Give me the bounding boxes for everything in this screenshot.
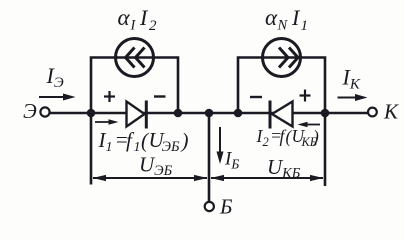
label plus (VD2) [300, 90, 311, 102]
terminal circle Э [40, 107, 49, 116]
arrow I_Э (current arrow, right) [39, 96, 67, 98]
dimension arrowhead U_КБ left [211, 175, 225, 181]
svg-text:α: α [118, 5, 131, 30]
svg-text:): ) [312, 127, 319, 147]
terminal circle К [368, 108, 377, 117]
svg-text:N: N [277, 18, 289, 34]
current source CS1 chevron arrows (pointing left) [126, 48, 135, 68]
terminal circle Б [205, 202, 214, 211]
wire main horizontal [50, 112, 368, 115]
label alpha_I I_2 [118, 5, 158, 34]
junction node dot 3 (base) [205, 109, 214, 118]
svg-text:2: 2 [263, 135, 269, 149]
svg-text:I: I [139, 5, 149, 30]
svg-text:К: К [383, 100, 399, 124]
junction node dot 5 [321, 109, 330, 118]
svg-text:): ) [181, 129, 189, 153]
label formula I1 = f1(U_ЭБ) [98, 128, 189, 156]
wire right loop [238, 58, 325, 114]
dimension arrowhead U_КБ right [310, 175, 324, 181]
svg-text:ЭБ: ЭБ [162, 139, 180, 155]
diode VD2 triangle [272, 102, 293, 127]
junction node dot 4 [234, 109, 243, 118]
wire base vertical [208, 113, 211, 202]
svg-text:UЭБ: UЭБ [139, 153, 173, 180]
diode VD1 cathode bar [145, 101, 148, 129]
svg-text:I: I [291, 5, 301, 30]
arrow I_1 (small, right) [95, 121, 112, 123]
label plus (VD1 anode) [104, 91, 115, 102]
dimension arrowhead U_ЭБ right [194, 175, 208, 181]
diode VD2 cathode bar [269, 101, 272, 129]
current source CS2 circle [263, 39, 301, 77]
svg-text:UКБ: UКБ [267, 155, 301, 182]
diode VD1 triangle [127, 102, 145, 127]
dimension arrowhead U_ЭБ left [93, 175, 107, 181]
junction node dot 1 [87, 109, 96, 118]
label formula I2 = f(U_КБ) [256, 126, 320, 150]
junction node dot 2 [174, 109, 183, 118]
wire left loop [91, 58, 178, 114]
svg-text:Б: Б [219, 195, 232, 219]
svg-text:Э: Э [23, 99, 37, 123]
svg-text:IБ: IБ [224, 149, 239, 172]
arrow I_К (current arrow, right) [338, 97, 360, 99]
extension line left (x=91) [90, 117, 93, 185]
svg-text:I: I [130, 18, 137, 34]
dimension line U_КБ [211, 177, 323, 179]
current source CS1 circle [116, 39, 154, 77]
label minus (VD1 cathode) [154, 95, 166, 97]
svg-text:1: 1 [301, 18, 309, 34]
svg-text:2: 2 [149, 18, 157, 34]
label minus (VD2) [250, 96, 262, 98]
svg-text:1: 1 [106, 140, 113, 155]
arrow I_2 (small, left) [304, 124, 320, 126]
arrow I_Б (down) [219, 127, 221, 156]
label alpha_N I_1 [265, 5, 308, 34]
dimension line U_ЭБ [93, 177, 207, 179]
current source CS2 chevron arrows (pointing right) [279, 48, 288, 68]
svg-text:IК: IК [342, 65, 361, 93]
svg-text:α: α [265, 5, 278, 30]
extension line right (x=325) [324, 117, 327, 186]
svg-text:IЭ: IЭ [46, 63, 64, 91]
